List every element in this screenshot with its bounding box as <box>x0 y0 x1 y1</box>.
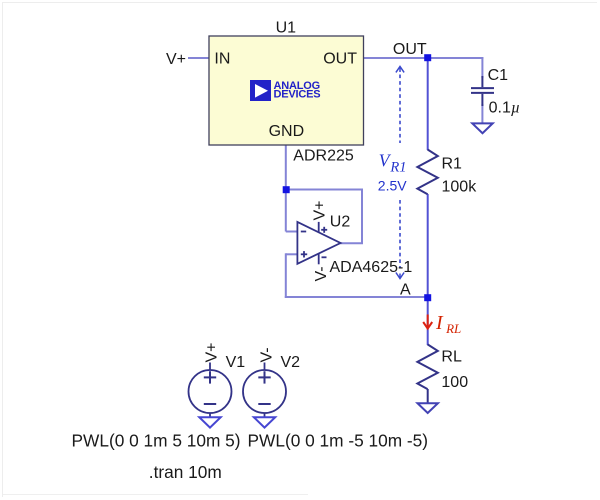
svg-text:100k: 100k <box>442 179 478 196</box>
svg-text:0.1µ: 0.1µ <box>489 100 520 117</box>
svg-text:OUT: OUT <box>393 41 427 58</box>
svg-text:U1: U1 <box>276 20 297 37</box>
svg-text:DEVICES: DEVICES <box>274 89 321 101</box>
svg-text:V2: V2 <box>281 354 301 371</box>
svg-text:.tran 10m: .tran 10m <box>149 462 222 482</box>
svg-text:V1: V1 <box>226 354 246 371</box>
svg-text:V+: V+ <box>166 51 186 68</box>
svg-text:V-: V- <box>313 266 330 281</box>
svg-text:V-: V- <box>258 347 275 362</box>
svg-text:IRL: IRL <box>435 312 461 336</box>
svg-text:V+: V+ <box>204 342 221 362</box>
svg-text:GND: GND <box>269 123 305 140</box>
svg-text:V+: V+ <box>312 200 329 220</box>
svg-text:A: A <box>400 281 411 298</box>
svg-text:2.5V: 2.5V <box>378 178 407 194</box>
svg-text:ADA4625-1: ADA4625-1 <box>330 259 413 276</box>
svg-text:RL: RL <box>441 349 462 366</box>
svg-text:R1: R1 <box>442 156 463 173</box>
svg-text:IN: IN <box>214 51 230 68</box>
svg-text:PWL(0 0 1m 5 10m 5): PWL(0 0 1m 5 10m 5) <box>72 431 241 451</box>
svg-text:U2: U2 <box>330 213 351 230</box>
svg-text:ADR225: ADR225 <box>293 147 354 164</box>
svg-text:100: 100 <box>441 374 468 391</box>
svg-text:PWL(0 0 1m -5 10m -5): PWL(0 0 1m -5 10m -5) <box>248 431 429 451</box>
svg-text:VR1: VR1 <box>379 150 407 175</box>
svg-text:C1: C1 <box>488 67 509 84</box>
svg-text:OUT: OUT <box>323 51 357 68</box>
